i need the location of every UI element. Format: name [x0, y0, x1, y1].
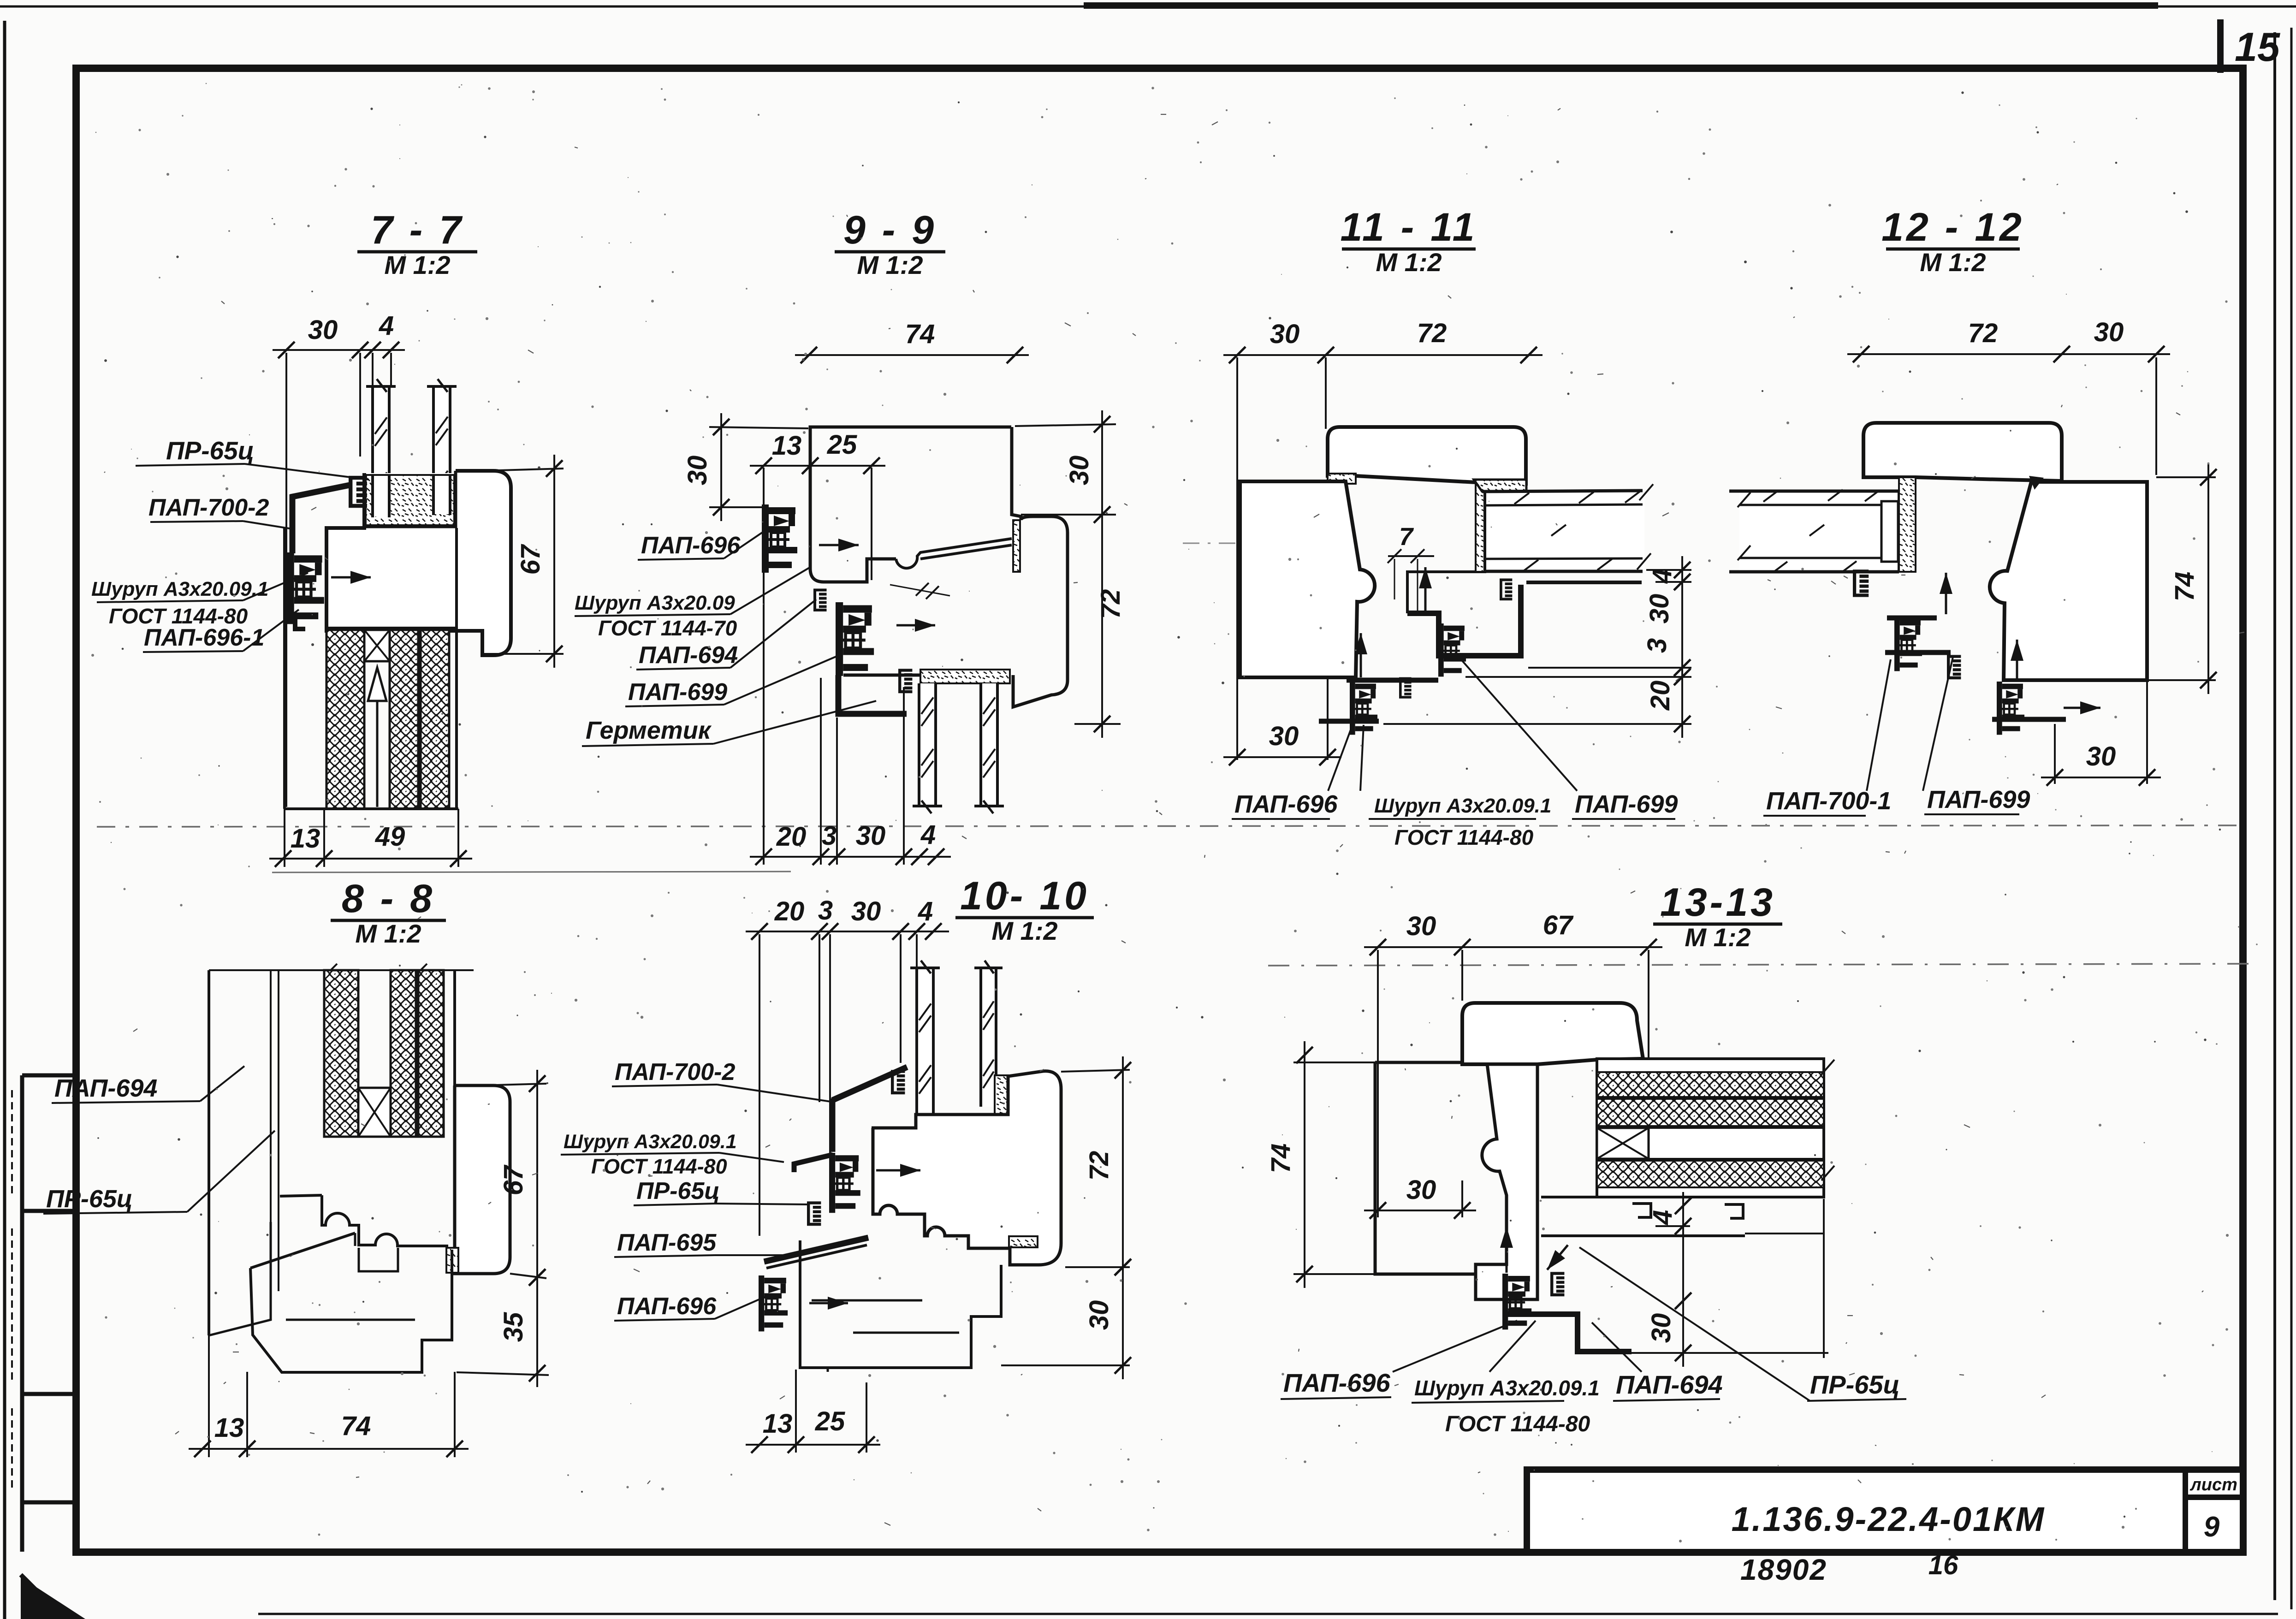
svg-text:30: 30 — [1646, 1313, 1676, 1343]
svg-text:30: 30 — [1644, 594, 1674, 624]
svg-text:20: 20 — [774, 896, 805, 926]
svg-text:М 1:2: М 1:2 — [384, 250, 450, 279]
dims 4 / 30 right 13-13 — [1655, 1225, 1690, 1227]
svg-text:13-13: 13-13 — [1660, 880, 1775, 925]
svg-text:4: 4 — [1648, 1210, 1678, 1225]
sash body right 11-11 — [1407, 484, 1526, 613]
svg-text:15: 15 — [2235, 24, 2280, 70]
svg-text:Шуруп А3х20.09.1: Шуруп А3х20.09.1 — [1374, 795, 1551, 817]
svg-text:72: 72 — [1968, 318, 1998, 348]
svg-text:9: 9 — [2204, 1511, 2220, 1543]
clip PR-65ts — [350, 478, 367, 506]
svg-text:ПР-65ц: ПР-65ц — [1810, 1370, 1900, 1399]
svg-text:ПАП-696: ПАП-696 — [617, 1293, 717, 1320]
svg-text:20: 20 — [1645, 681, 1675, 711]
clip PAP-696 11-11 — [1319, 680, 1438, 721]
gasket strip — [1899, 477, 1916, 572]
screw clip mid 10-10 — [829, 1153, 860, 1213]
right dims 4/30/3/20 — [1646, 569, 1691, 571]
svg-text:74: 74 — [905, 319, 935, 349]
svg-text:М 1:2: М 1:2 — [991, 916, 1057, 945]
svg-text:25: 25 — [827, 430, 857, 460]
svg-text:ПАП-699: ПАП-699 — [628, 679, 727, 706]
bottom flashing Germetik 9-9 — [838, 675, 907, 714]
sash top block 11-11 — [1328, 427, 1526, 484]
svg-text:30: 30 — [1406, 911, 1436, 941]
svg-text:13: 13 — [763, 1409, 793, 1439]
svg-text:18902: 18902 — [1740, 1553, 1827, 1586]
dim 30/72 right — [1015, 424, 1116, 426]
svg-text:1.136.9-22.4-01КМ: 1.136.9-22.4-01КМ — [1732, 1500, 2046, 1538]
sheet number 15 top right — [2217, 19, 2224, 73]
svg-text:М 1:2: М 1:2 — [1376, 248, 1442, 277]
svg-text:ПАП-696: ПАП-696 — [1234, 790, 1338, 818]
seal strip — [1328, 474, 1356, 484]
svg-text:30: 30 — [1064, 456, 1094, 486]
svg-text:30: 30 — [851, 896, 881, 926]
svg-text:4: 4 — [920, 820, 936, 850]
svg-text:16: 16 — [1928, 1550, 1958, 1580]
left jamb line — [283, 528, 286, 809]
svg-text:9 - 9: 9 - 9 — [843, 208, 937, 252]
svg-text:ГОСТ 1144-80: ГОСТ 1144-80 — [1394, 825, 1534, 849]
mini dim 7 — [916, 583, 929, 596]
left jamb bottom cut — [209, 1222, 271, 1335]
svg-text:11 - 11: 11 - 11 — [1341, 205, 1477, 249]
clip PAP-696 9-9 — [762, 504, 797, 573]
svg-text:ПАП-700-2: ПАП-700-2 — [148, 494, 269, 521]
sill flashing PAP-695 — [764, 1238, 868, 1262]
svg-text:3: 3 — [1642, 638, 1672, 653]
dim 30 right 10-10 — [1001, 1364, 1130, 1366]
svg-text:20: 20 — [776, 822, 807, 852]
dim 30 / 67 top 13-13 — [1377, 950, 1379, 1217]
svg-text:74: 74 — [2170, 572, 2200, 602]
hatched wall 7-7 — [326, 627, 457, 629]
glazing pane lower parts — [373, 475, 389, 517]
glass unit horizontal 12-12 — [1739, 491, 1899, 572]
sash center post 13-13 — [1476, 1064, 1537, 1299]
svg-text:7 - 7: 7 - 7 — [371, 208, 464, 252]
svg-text:4: 4 — [918, 896, 933, 926]
svg-text:67: 67 — [498, 1164, 528, 1195]
wall top edge — [209, 969, 474, 971]
frame jamb block 11-11 — [1240, 481, 1375, 677]
glass pane 2 — [433, 386, 450, 515]
svg-text:ПАП-694: ПАП-694 — [54, 1074, 157, 1102]
sash bottom / glazing pocket 9-9 — [843, 674, 991, 677]
dim 35 right 8-8 — [457, 1372, 549, 1375]
svg-text:ГОСТ 1144-70: ГОСТ 1144-70 — [598, 616, 737, 640]
profile PAP-699 9-9 — [836, 602, 874, 676]
svg-text:М 1:2: М 1:2 — [1920, 248, 1986, 277]
svg-text:М 1:2: М 1:2 — [355, 919, 421, 948]
svg-text:Шуруп А3х20.09.1: Шуруп А3х20.09.1 — [1414, 1376, 1600, 1400]
dim 74 left 13-13 — [1293, 1062, 1383, 1063]
svg-text:72: 72 — [1096, 589, 1126, 619]
svg-text:30: 30 — [856, 821, 886, 851]
profile PAP-699 11-11 — [1407, 585, 1521, 656]
svg-text:Герметик: Герметик — [586, 717, 712, 744]
sash block 10-10 — [872, 1071, 1061, 1265]
glazing bead wedge — [1474, 480, 1526, 492]
title block — [1527, 1470, 2243, 1552]
svg-text:67: 67 — [516, 544, 546, 575]
svg-text:49: 49 — [375, 822, 405, 852]
sash profile 8-8 — [455, 1085, 510, 1274]
svg-text:35: 35 — [498, 1312, 528, 1342]
svg-text:4: 4 — [1647, 569, 1677, 584]
frame sill block 10-10 — [800, 1240, 1001, 1368]
svg-text:30: 30 — [1084, 1300, 1114, 1330]
svg-text:ПР-65ц: ПР-65ц — [166, 436, 254, 465]
clip PAP-694 9-9 — [815, 590, 827, 611]
dim 13 / 74 bottom 8-8 — [208, 1335, 210, 1457]
sash block 13-13 — [1462, 1003, 1643, 1064]
X-blocking — [364, 630, 390, 661]
svg-text:30: 30 — [1269, 721, 1299, 751]
clip PAP-696 10-10 — [759, 1275, 788, 1331]
dim 20/3/30/4 top 10-10 — [759, 934, 760, 1236]
mini dim 7 — [1388, 555, 1434, 557]
svg-text:М 1:2: М 1:2 — [857, 250, 923, 279]
svg-text:4: 4 — [379, 311, 394, 341]
dim 30 bottom left 11-11 — [1327, 677, 1329, 760]
svg-text:ПР-65ц: ПР-65ц — [636, 1178, 720, 1204]
bottom clips 12-12 — [1885, 618, 1951, 652]
svg-text:ПАП-699: ПАП-699 — [1575, 790, 1678, 818]
svg-text:74: 74 — [1266, 1144, 1296, 1174]
glass pane 1 — [373, 386, 389, 517]
dim 30 bottom 12-12 — [2054, 724, 2056, 784]
svg-text:ГОСТ 1144-80: ГОСТ 1144-80 — [591, 1155, 727, 1178]
clip PAP-696-1 with screw — [287, 552, 324, 624]
left margin rotated captions — [11, 1090, 13, 1193]
svg-text:67: 67 — [1543, 910, 1574, 940]
dim 67 right 8-8 — [480, 1084, 546, 1085]
svg-text:М 1:2: М 1:2 — [1685, 923, 1750, 952]
crease stub left of 11-11 — [1183, 543, 1245, 544]
left margin stamp boxes — [20, 1075, 24, 1552]
seal wedge 12-12 — [2029, 476, 2044, 490]
svg-text:13: 13 — [214, 1413, 244, 1443]
frame block right 12-12 — [1990, 482, 2147, 680]
glass panes 10-10 — [917, 968, 933, 1115]
svg-text:12 - 12: 12 - 12 — [1881, 205, 2024, 249]
svg-text:13: 13 — [291, 824, 320, 854]
sash head profile outline — [326, 471, 511, 655]
svg-text:30: 30 — [308, 315, 338, 345]
svg-text:ПАП-700-2: ПАП-700-2 — [615, 1059, 735, 1085]
svg-text:30: 30 — [1270, 319, 1300, 349]
svg-text:ПАП-695: ПАП-695 — [617, 1229, 717, 1256]
creases — [97, 825, 2237, 827]
svg-text:ПАП-699: ПАП-699 — [1927, 786, 2030, 813]
top flashing PAP-700-2 10-10 — [832, 1067, 907, 1100]
dim 67 right — [482, 469, 564, 471]
svg-text:лист: лист — [2189, 1475, 2237, 1494]
frame head block 9-9 — [810, 427, 1011, 582]
glass unit horizontal 11-11 — [1485, 492, 1644, 572]
svg-text:72: 72 — [1417, 318, 1447, 348]
svg-text:25: 25 — [815, 1406, 845, 1436]
dim 74 right — [2156, 476, 2216, 478]
svg-text:30: 30 — [1406, 1175, 1436, 1205]
svg-text:30: 30 — [2094, 317, 2124, 347]
svg-text:7: 7 — [1399, 523, 1414, 551]
dim 13 / 25 — [763, 468, 765, 505]
svg-text:ПР-65ц: ПР-65ц — [46, 1185, 133, 1213]
outer page border — [3, 21, 6, 1619]
wedge symbol — [368, 668, 386, 701]
wall columns 8-8 — [208, 970, 210, 1335]
clip PAP-696 13-13 — [1502, 1274, 1531, 1329]
support rail below glass — [1501, 580, 1512, 599]
clip PR-65ts 13-13 — [1552, 1274, 1564, 1295]
frame block 13-13 — [1375, 1062, 1476, 1274]
sash top block 12-12 — [1863, 423, 2062, 481]
svg-text:ПАП-694: ПАП-694 — [1616, 1370, 1723, 1399]
svg-text:ПАП-696-1: ПАП-696-1 — [144, 624, 264, 651]
glass panes 9-9 going down — [913, 683, 942, 813]
svg-text:ПАП-696: ПАП-696 — [641, 532, 741, 559]
svg-text:Шуруп А3х20.09: Шуруп А3х20.09 — [575, 592, 735, 614]
dim 72 right 10-10 — [1061, 1070, 1130, 1072]
dim 72 / 30 top — [2155, 357, 2157, 475]
svg-text:ПАП-694: ПАП-694 — [639, 642, 738, 669]
svg-text:3: 3 — [818, 895, 833, 925]
svg-text:ПАП-700-1: ПАП-700-1 — [1766, 787, 1891, 815]
dim 30 inner 13-13 — [1461, 1180, 1463, 1217]
dim 13 / 49 bottom — [323, 809, 325, 867]
svg-text:Шуруп А3х20.09.1: Шуруп А3х20.09.1 — [91, 578, 268, 600]
dim 13 / 25 bottom 10-10 — [795, 1370, 797, 1453]
svg-text:ПАП-696: ПАП-696 — [1283, 1368, 1391, 1397]
sandwich panel 13-13 — [1597, 1059, 1824, 1197]
svg-text:3: 3 — [822, 821, 837, 851]
dim 20/3/30/4 bottom 9-9 — [763, 505, 765, 865]
svg-text:8 - 8: 8 - 8 — [342, 877, 435, 921]
svg-text:13: 13 — [772, 431, 802, 461]
dim 74 top — [795, 354, 1029, 356]
svg-text:30: 30 — [682, 456, 712, 486]
clip PR-65ts 12-12 — [1855, 571, 1869, 595]
svg-text:72: 72 — [1084, 1151, 1114, 1181]
svg-text:30: 30 — [2086, 741, 2116, 771]
head flashing PAP-700-2 — [291, 485, 350, 497]
right sash block 9-9 — [1012, 427, 1021, 520]
svg-text:10- 10: 10- 10 — [960, 874, 1089, 918]
svg-text:ГОСТ 1144-80: ГОСТ 1144-80 — [1445, 1412, 1590, 1436]
glazing pocket 10-10 — [918, 1116, 1007, 1128]
dim 30 / 4 top — [285, 353, 287, 807]
dim 30 left — [709, 427, 808, 428]
svg-text:Шуруп А3х20.09.1: Шуруп А3х20.09.1 — [564, 1131, 737, 1153]
svg-text:74: 74 — [341, 1411, 371, 1441]
fold mark triangle bottom left — [21, 1577, 85, 1619]
dim 30 / 72 top — [1236, 357, 1238, 760]
bottom rail 13-13 — [1541, 1197, 1824, 1236]
